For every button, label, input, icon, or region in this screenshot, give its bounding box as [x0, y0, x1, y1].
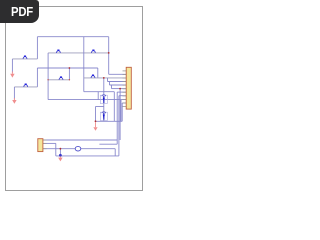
wire vertical mid bus to net B — [36, 68, 38, 87]
wire connector pin4 — [110, 84, 127, 86]
wire net B stem down — [13, 87, 15, 99]
wire net2 drop — [55, 143, 57, 156]
wire VDD top rail — [37, 36, 108, 38]
wire connector pin10 — [122, 102, 126, 104]
wire pin3 jog vertical — [107, 78, 109, 82]
junction blob on ground tap — [59, 154, 62, 157]
junction dot bump wire — [103, 77, 105, 79]
wire connector pin1 — [109, 73, 127, 75]
wire nest vertical left — [113, 92, 115, 122]
wire connector pin6 — [117, 91, 126, 93]
wire block net2 — [43, 142, 56, 144]
junction dot row1 right — [108, 52, 110, 54]
transistor M1 bump — [23, 56, 27, 59]
transistor M5 bump — [59, 76, 63, 79]
ground arrow 4 — [58, 156, 62, 161]
wire pin10 drop — [121, 103, 123, 121]
junction dot net3 tap — [60, 148, 62, 150]
transistor M3 bump — [57, 50, 61, 53]
wire mid horizontal bus — [37, 67, 97, 69]
wire net A stem down — [11, 59, 13, 73]
connector J1 pin stubs — [123, 71, 127, 107]
page sheet — [6, 7, 143, 191]
transistor Q2 top arc — [102, 112, 106, 113]
junction dot gate loop — [95, 120, 97, 122]
inductor symbol on net3 — [75, 146, 81, 151]
transistor M2 bump — [24, 84, 28, 87]
junction dot pin5 — [119, 88, 121, 90]
wire between Q1 and Q2 — [103, 103, 105, 113]
wire pin4 jog vertical — [109, 82, 111, 86]
ground arrow 3 — [93, 122, 97, 131]
wire pin5 jog vertical — [111, 85, 113, 89]
wire stub net y144 — [99, 143, 117, 145]
wire long vertical from rail mid — [83, 37, 85, 92]
wire gnd rail riser — [120, 100, 122, 122]
wire mid bus drop to bump wire — [97, 68, 99, 78]
pin end tick row3 left — [47, 79, 48, 80]
transistor M4 bump — [92, 50, 96, 53]
wire block net3 — [43, 148, 115, 150]
wire net3 tap down — [59, 149, 61, 156]
wire bump wire to pin2 — [84, 77, 126, 79]
connector J2 pin stubs — [43, 140, 47, 149]
junction dot mid bus — [69, 67, 71, 69]
wire block net1 — [43, 139, 117, 141]
wire long vertical row1 down — [47, 53, 49, 100]
ground arrow 1 — [10, 72, 14, 78]
transistor Q2 arrow — [103, 115, 105, 119]
transistor Q1 channel bar — [103, 96, 105, 103]
wire connector pin5 — [112, 88, 127, 90]
transistor Q1 arrow — [103, 98, 105, 102]
wire rail right vertical — [108, 37, 110, 75]
wire Q source long horizontal pin8 — [48, 99, 126, 101]
wire ground bottom rail — [56, 155, 119, 157]
transistor Q2 channel bar — [103, 113, 105, 120]
wire net3 right corner down — [114, 149, 116, 156]
wire net B horizontal — [14, 86, 37, 88]
wire nest horizontal mid — [84, 91, 115, 93]
wire row3 horizontal — [48, 79, 69, 81]
wire ground short rail — [96, 120, 123, 122]
wire junction drop to row3 — [68, 68, 70, 80]
wire Q2 to ground rail — [103, 120, 105, 122]
wire Q1 gate drop — [97, 92, 99, 100]
wire pin7 drop to ground rail — [118, 96, 120, 156]
transistor Q1 top arc — [102, 95, 106, 96]
transistor Q1 body box — [100, 95, 107, 103]
PDF file-type badge — [0, 0, 39, 23]
transistor M6 bump — [91, 75, 95, 78]
connector J2 body — [38, 139, 43, 152]
wire connector pin3 — [108, 81, 127, 83]
wire pin5 drop to net1 — [119, 89, 121, 140]
wire net A horizontal — [12, 58, 37, 60]
wire row1 horizontal — [48, 52, 109, 54]
pin end tick row3 right — [69, 79, 70, 80]
wire gate stub horizontal — [96, 106, 104, 108]
ground arrow 2 — [12, 98, 16, 104]
wire gate loop vertical — [95, 107, 97, 122]
wire Q drain vertical — [103, 78, 105, 96]
wire vertical VDD rail left leg — [36, 37, 38, 59]
wire pin6 drop — [116, 92, 118, 144]
wire connector pin7 — [119, 95, 126, 97]
transistor Q2 body box — [100, 112, 107, 120]
connector J1 body — [126, 67, 131, 109]
